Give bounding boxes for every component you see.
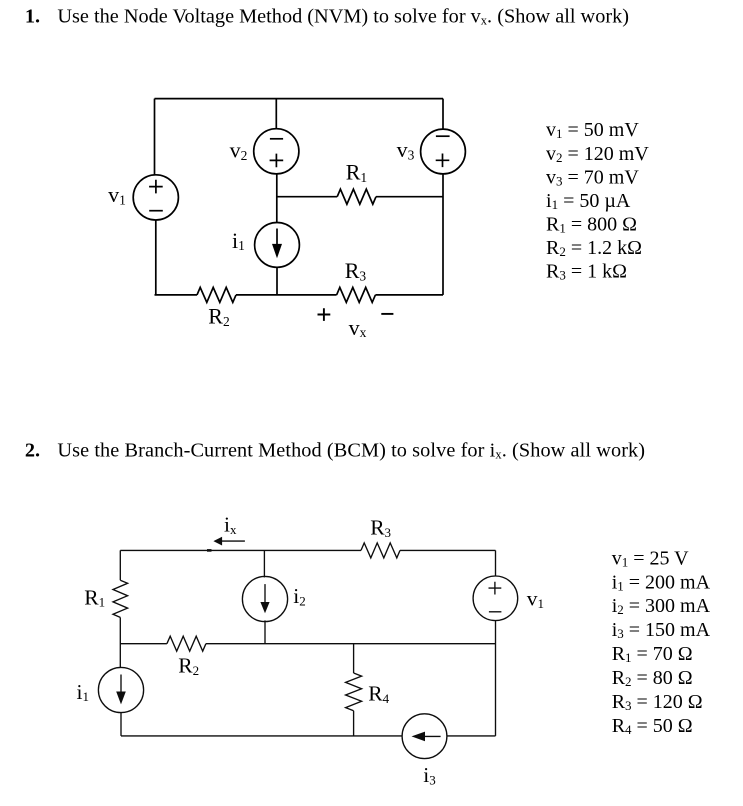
svg-text:R4: R4 (368, 682, 389, 706)
svg-text:i3: i3 (423, 763, 435, 787)
svg-text:v1: v1 (108, 182, 126, 207)
svg-text:R3: R3 (370, 516, 391, 540)
svg-text:R2: R2 (178, 654, 199, 678)
svg-text:i2: i2 (293, 584, 305, 608)
svg-text:R1 = 70 Ω: R1 = 70 Ω (612, 643, 693, 665)
svg-text:R2: R2 (208, 304, 229, 329)
svg-text:i1 = 50 µA: i1 = 50 µA (546, 190, 631, 212)
svg-text:R3 = 120 Ω: R3 = 120 Ω (612, 691, 703, 713)
svg-text:v2 = 120 mV: v2 = 120 mV (546, 143, 649, 165)
svg-text:i1 = 200 mA: i1 = 200 mA (612, 571, 711, 593)
svg-text:i1: i1 (232, 228, 245, 253)
svg-text:v1 = 50 mV: v1 = 50 mV (546, 119, 639, 141)
svg-text:Use the Branch-Current Method: Use the Branch-Current Method (BCM) to s… (57, 440, 645, 462)
svg-text:2.: 2. (25, 440, 40, 462)
svg-text:i3 = 150 mA: i3 = 150 mA (612, 619, 711, 641)
svg-text:v1: v1 (527, 587, 544, 611)
svg-text:i2 = 300 mA: i2 = 300 mA (612, 595, 711, 617)
svg-text:R3: R3 (345, 258, 367, 283)
svg-text:v1 = 25 V: v1 = 25 V (612, 547, 689, 569)
svg-text:R1: R1 (346, 160, 367, 185)
svg-text:v3 = 70 mV: v3 = 70 mV (546, 166, 639, 188)
svg-text:v2: v2 (230, 137, 248, 162)
svg-text:v3: v3 (397, 137, 415, 162)
svg-text:R3 = 1 kΩ: R3 = 1 kΩ (546, 261, 627, 283)
svg-text:R1 = 800 Ω: R1 = 800 Ω (546, 214, 637, 236)
svg-text:R2 = 1.2 kΩ: R2 = 1.2 kΩ (546, 237, 642, 259)
svg-text:R4 = 50 Ω: R4 = 50 Ω (612, 715, 693, 737)
svg-text:R1: R1 (84, 585, 105, 609)
svg-text:vx: vx (349, 315, 367, 340)
svg-text:Use the Node Voltage Method (N: Use the Node Voltage Method (NVM) to sol… (57, 6, 629, 28)
svg-text:1.: 1. (25, 6, 40, 28)
svg-text:i1: i1 (77, 680, 89, 704)
svg-text:R2 = 80 Ω: R2 = 80 Ω (612, 667, 693, 689)
svg-text:ix: ix (224, 513, 237, 537)
